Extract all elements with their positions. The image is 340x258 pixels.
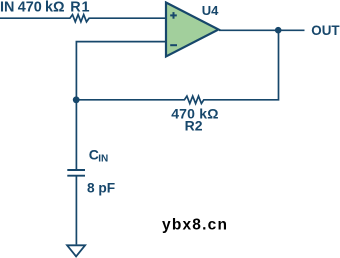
svg-text:OUT: OUT bbox=[311, 23, 340, 38]
svg-text:R1: R1 bbox=[70, 0, 90, 16]
svg-text:ybx8.cn: ybx8.cn bbox=[162, 217, 228, 234]
svg-text:IN: IN bbox=[98, 154, 108, 165]
svg-text:IN: IN bbox=[0, 0, 14, 16]
svg-text:R2: R2 bbox=[185, 118, 203, 134]
svg-text:U4: U4 bbox=[202, 3, 219, 18]
svg-text:470: 470 bbox=[18, 0, 42, 16]
svg-text:8 pF: 8 pF bbox=[87, 181, 115, 196]
svg-text:kΩ: kΩ bbox=[45, 0, 65, 16]
